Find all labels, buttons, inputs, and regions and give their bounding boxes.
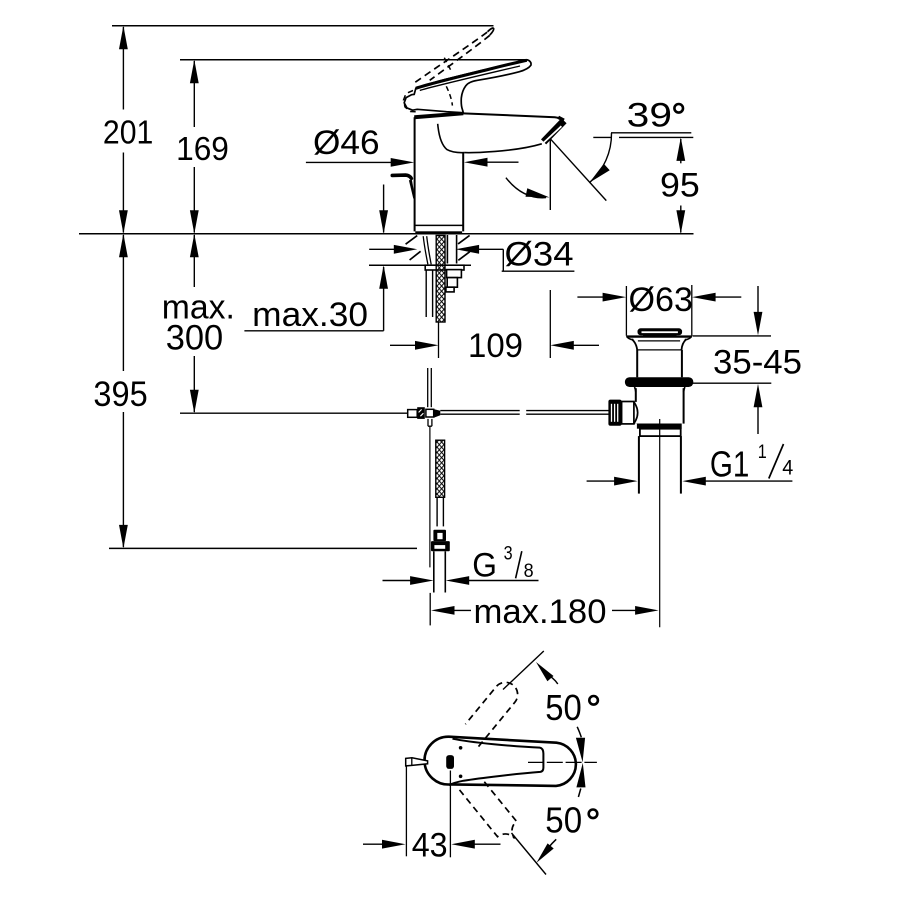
dimension 201 line — [119, 26, 128, 234]
pop-up wire lower — [429, 426, 431, 567]
lower 50deg arc arrows — [537, 763, 586, 863]
svg-text:201: 201 — [103, 114, 153, 151]
dimension Ø46 label+leader — [306, 124, 414, 167]
svg-text:Ø46: Ø46 — [313, 124, 380, 162]
pop-up rod upper — [423, 236, 431, 264]
dimension max.180 ext line — [429, 593, 431, 626]
linkage wedge — [434, 409, 441, 418]
dimension Ø63 label — [629, 281, 694, 319]
dimension 169 label — [176, 131, 229, 168]
deck underside line (max.30) — [369, 264, 471, 266]
dimension 201 label — [103, 114, 153, 151]
countertop / deck line — [79, 233, 694, 235]
svg-text:50: 50 — [545, 799, 582, 840]
svg-text:Ø34: Ø34 — [505, 236, 574, 274]
upper 50deg axis line — [503, 651, 544, 690]
linkage clevis — [408, 410, 418, 418]
drain knob collar — [622, 402, 638, 424]
dimension 35-45 arrows — [754, 286, 763, 434]
spout top edge — [463, 113, 563, 121]
mounting washer plate — [425, 265, 464, 270]
aerator axis diagonal — [550, 139, 606, 201]
dimension G 3/8 label — [472, 542, 533, 584]
pop-up horizontal rod reference line — [180, 412, 408, 414]
svg-text:G: G — [472, 547, 497, 585]
deck section hatch marks — [406, 235, 470, 260]
dimension 395 line — [119, 234, 128, 549]
svg-text:1: 1 — [758, 441, 767, 463]
dimension 43 arrows — [363, 840, 501, 849]
dimension 43 label — [412, 826, 448, 864]
dimension 43 ext lines — [406, 767, 450, 858]
svg-text:G1: G1 — [710, 443, 750, 484]
dimension max.300 label — [162, 288, 235, 357]
top view pop-up lever tab — [406, 758, 428, 766]
handle (solid) outline — [404, 60, 531, 113]
reference line: raised-handle top level (201) — [112, 25, 494, 27]
dimension max.300 line — [190, 234, 199, 413]
top view centerline — [528, 761, 597, 763]
spout aerator end face — [543, 117, 564, 143]
dimension Ø34 label — [505, 236, 574, 274]
dimension 95 line+arrows — [676, 137, 685, 233]
spout swivel arc with arrowhead — [506, 178, 550, 198]
dimension 109 ext lines — [439, 290, 551, 358]
handle top edge thick stroke — [416, 60, 527, 88]
reference line: hose reach bottom (395) — [109, 547, 417, 549]
lower 50deg axis line — [512, 833, 547, 875]
dimension max.180 arrows — [431, 606, 659, 615]
39deg horizontal leg — [611, 132, 691, 134]
drain centerline — [659, 419, 661, 627]
svg-text:4: 4 — [782, 457, 793, 480]
svg-text:109: 109 — [468, 327, 523, 365]
rod guide tube — [426, 270, 432, 317]
top view cartridge slot — [446, 755, 454, 769]
dimension 169 line — [190, 60, 199, 234]
39deg arc with arrowhead — [589, 133, 611, 183]
handle top inner highlight line — [420, 66, 520, 90]
spout-body fillet curve — [438, 124, 465, 153]
drain top flange lip — [626, 336, 691, 340]
handle raised position (dashed) — [415, 28, 493, 82]
drain collar — [640, 429, 681, 436]
svg-text:395: 395 — [93, 375, 147, 414]
dimension G1 1/4 label — [710, 441, 794, 485]
handle rotated +50deg (dashed) — [465, 682, 517, 746]
drain body lower — [635, 387, 685, 424]
95 top reference line — [593, 136, 693, 138]
flexible hose lower (braided) — [436, 440, 445, 497]
dimension max.30 leader+arrows — [244, 185, 388, 331]
faucet body/handle joint dark band — [414, 112, 463, 120]
spout underside edge — [465, 144, 542, 153]
dimension Ø34 arrows — [369, 245, 574, 271]
svg-text:3: 3 — [504, 542, 513, 564]
faucet base plate — [414, 225, 462, 234]
drain body bottom dark ring — [637, 424, 682, 429]
dimension Ø46 right arrow — [464, 158, 519, 167]
dimension Ø63 arrows — [577, 293, 741, 302]
svg-text:35-45: 35-45 — [713, 343, 802, 381]
dimension 395 label — [93, 375, 147, 414]
pop-up rod knob — [392, 175, 415, 199]
drain cap — [638, 329, 681, 336]
drain knurled knob — [608, 400, 621, 426]
top view inner handle outline — [449, 739, 544, 785]
dimension max.30 label — [252, 296, 368, 334]
dimension G1 1/4 arrows — [587, 477, 793, 486]
flexible hose upper (braided) — [436, 236, 445, 323]
drain neck curves — [632, 339, 687, 350]
drain seal flange (black) — [625, 377, 693, 387]
linkage lower stub — [428, 419, 432, 426]
dimension 95 label — [660, 167, 700, 205]
svg-text:8: 8 — [524, 560, 534, 582]
top view screw dots — [459, 746, 463, 778]
svg-text:max.180: max.180 — [474, 593, 607, 631]
linkage block dark — [417, 407, 425, 419]
drain body upper — [637, 350, 682, 377]
hose connection nut — [431, 530, 450, 552]
spout outlet vertical line — [549, 139, 551, 210]
upper 50deg label — [545, 687, 598, 728]
dimension 109 label — [468, 327, 523, 365]
dimension Ø63 ext lines — [626, 285, 691, 336]
svg-text:50: 50 — [545, 687, 582, 728]
hose end sleeve — [437, 497, 443, 526]
top view outer capsule — [424, 737, 575, 786]
dimension 35-45 ref lines — [692, 336, 772, 383]
39deg label — [627, 97, 683, 135]
pop-up rod vertical (above linkage) — [428, 368, 432, 407]
lower 50deg label — [545, 799, 597, 840]
drain tailpipe — [639, 436, 681, 494]
horizontal bar tube — [440, 411, 608, 415]
svg-text:43: 43 — [412, 826, 448, 864]
svg-text:300: 300 — [166, 318, 224, 357]
handle hidden dashes — [444, 58, 452, 106]
threaded shank tube — [447, 235, 456, 264]
handle base raised position (dashed polygon) — [404, 91, 419, 112]
dimension 35-45 label — [713, 343, 802, 381]
svg-text:max.30: max.30 — [252, 296, 368, 334]
upper 50deg arc arrows — [536, 662, 585, 762]
svg-text:39: 39 — [627, 97, 672, 135]
svg-text:95: 95 — [660, 167, 700, 205]
svg-text:169: 169 — [176, 131, 229, 168]
dimension 109 arrows — [390, 341, 599, 350]
handle rotated -50deg (dashed) — [460, 782, 517, 839]
mounting nut steps — [446, 270, 462, 292]
linkage white box — [426, 409, 434, 417]
hose end pipe — [434, 551, 446, 592]
svg-text:Ø63: Ø63 — [629, 281, 694, 319]
faucet body right edge — [462, 153, 464, 232]
faucet body left edge — [414, 117, 416, 231]
reference line: handle top level (169) — [180, 59, 527, 61]
dimension max.180 label — [474, 593, 607, 631]
dimension G 3/8 arrows — [383, 576, 539, 585]
